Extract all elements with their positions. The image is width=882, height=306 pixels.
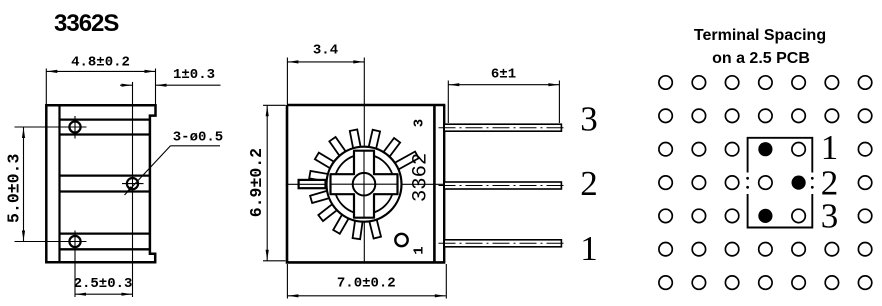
svg-text:1: 1 [580, 229, 598, 268]
svg-text:3-ø0.5: 3-ø0.5 [173, 130, 223, 146]
terminal hole top (pin3) [69, 121, 80, 132]
crosshair bottom hole [15, 241, 87, 243]
pins [444, 124, 561, 131]
centerlines through cross [363, 151, 365, 218]
svg-text:3362: 3362 [410, 153, 433, 202]
svg-text:3.4: 3.4 [313, 43, 338, 59]
svg-text:2: 2 [580, 164, 598, 203]
side view body outline [46, 105, 155, 262]
front view body [287, 105, 445, 262]
svg-text:6.9±0.2: 6.9±0.2 [247, 148, 266, 217]
svg-text:3: 3 [821, 197, 839, 236]
terminal hole middle (pin2) [127, 178, 138, 189]
svg-text:7.0±0.2: 7.0±0.2 [337, 276, 396, 292]
crosshair middle hole [122, 183, 144, 185]
svg-text:4.8±0.2: 4.8±0.2 [71, 55, 130, 71]
crosshair top hole [15, 126, 87, 128]
svg-text:1: 1 [412, 246, 428, 254]
svg-text:5.0±0.3: 5.0±0.3 [5, 154, 24, 223]
footprint rectangle [748, 138, 813, 228]
side adjust slot [299, 180, 326, 188]
rotor outer circle [327, 147, 402, 222]
pin1 position marker circle [395, 234, 407, 246]
pcb hole grid [659, 76, 672, 89]
svg-text:3362S: 3362S [54, 10, 119, 37]
rotor cross slot [331, 151, 398, 218]
svg-text:on a 2.5 PCB: on a 2.5 PCB [712, 50, 810, 67]
svg-text:6±1: 6±1 [491, 67, 516, 83]
svg-text:3: 3 [580, 100, 598, 139]
rotor teeth [392, 152, 419, 171]
svg-text:Terminal Spacing: Terminal Spacing [694, 27, 826, 44]
terminal hole bottom (pin1) [69, 236, 80, 247]
vertical centerline [363, 58, 365, 262]
side view left flange line [58, 105, 60, 262]
terminal band lines [60, 118, 150, 120]
pin2 column extension line (1 dim + 2.5 dim) [132, 82, 134, 297]
rotor recess arcs [374, 195, 392, 213]
rotor center circle [353, 173, 376, 196]
svg-text:1: 1 [821, 128, 839, 167]
svg-text:1±0.3: 1±0.3 [173, 67, 215, 83]
svg-text:2.5±0.3: 2.5±0.3 [74, 276, 133, 292]
horizontal centerline [286, 183, 446, 185]
rect edge dots [746, 177, 749, 180]
pin seating plate line [443, 105, 445, 262]
svg-text:3: 3 [412, 119, 428, 127]
